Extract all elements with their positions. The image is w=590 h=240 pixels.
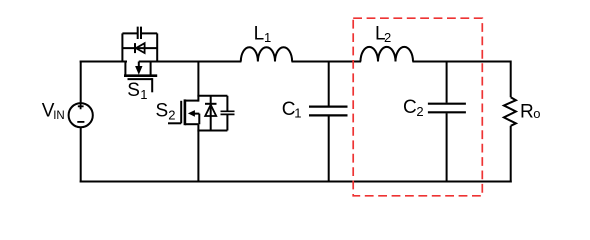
S2 output capacitor plates <box>221 111 235 114</box>
inductor L2 <box>361 47 414 62</box>
capacitor C1 top wire <box>328 62 330 106</box>
S1 source stub <box>150 62 152 76</box>
S2 source wire <box>197 124 199 181</box>
S1 gate lead <box>151 78 153 92</box>
S1 channel bar <box>124 74 157 77</box>
wire Vin top lead <box>80 61 82 104</box>
S2 body diode triangle <box>205 105 216 116</box>
capacitor C1 plates <box>309 107 348 116</box>
S1 body arrow head <box>135 66 142 75</box>
svg-text:2: 2 <box>384 30 391 45</box>
svg-text:S: S <box>156 101 169 122</box>
S1 parallel branch left side <box>121 33 123 62</box>
svg-text:L: L <box>254 23 265 44</box>
svg-text:1: 1 <box>264 30 271 45</box>
capacitor C2 bottom wire <box>446 113 448 181</box>
S2 gate lead <box>168 122 181 124</box>
S2 snubber top wire <box>197 95 227 97</box>
capacitor branch wires of S1 <box>122 32 157 34</box>
svg-text:R: R <box>520 102 534 123</box>
resistor Ro top wire <box>510 61 512 98</box>
S1 body arrow stem <box>138 62 140 68</box>
diode D1 cathode bar <box>134 43 136 53</box>
S2 drain wire <box>197 62 199 102</box>
voltage source VIN circle <box>69 103 93 127</box>
capacitor C2 top wire <box>446 62 448 103</box>
svg-text:S: S <box>127 80 140 101</box>
S2 drain jog to channel <box>185 100 199 102</box>
minus sign of VIN <box>77 121 84 123</box>
S2 source jog <box>185 123 199 125</box>
S1 drain stub <box>124 62 126 76</box>
svg-text:o: o <box>533 106 540 121</box>
dashed red highlight box around L2 C2 stage <box>353 18 482 196</box>
inductor L1 <box>241 47 292 61</box>
svg-text:2: 2 <box>168 108 175 123</box>
wire Vin bottom lead <box>80 127 82 182</box>
S2 body arrow tail wire <box>194 114 199 125</box>
resistor Ro bottom wire <box>510 126 512 183</box>
resistor Ro zigzag <box>504 97 516 126</box>
wire top rail segment from L2 to Ro <box>412 61 510 63</box>
S1 parallel branch right side <box>156 33 158 62</box>
capacitor plates of S1 <box>138 27 141 39</box>
diode D1 triangle <box>136 43 145 53</box>
S1 gate bar <box>128 78 153 80</box>
wire bottom rail <box>80 181 512 183</box>
svg-text:2: 2 <box>416 104 423 119</box>
svg-text:C: C <box>403 97 417 118</box>
plus sign of VIN <box>78 104 84 110</box>
capacitor C1 bottom wire <box>328 116 330 181</box>
diode branch wire of S1 <box>122 47 157 49</box>
wire top rail segment from Vin to S1 drain <box>80 61 127 63</box>
S2 body arrow head <box>188 110 195 117</box>
svg-text:IN: IN <box>53 110 64 122</box>
svg-text:1: 1 <box>140 87 147 102</box>
wire top rail segment from L1 to L2 <box>292 61 362 63</box>
S2 snubber bottom wire <box>197 130 227 132</box>
S2 body diode branch wire <box>210 96 212 131</box>
S2 output capacitor branch wires <box>226 96 228 131</box>
capacitor C2 plates <box>428 104 466 113</box>
wire top rail segment from S1 source to L1 <box>139 61 242 63</box>
S2 body diode cathode bar <box>205 103 217 105</box>
svg-text:1: 1 <box>294 106 301 121</box>
S2 channel bar <box>184 99 187 125</box>
S2 gate bar <box>180 101 182 124</box>
